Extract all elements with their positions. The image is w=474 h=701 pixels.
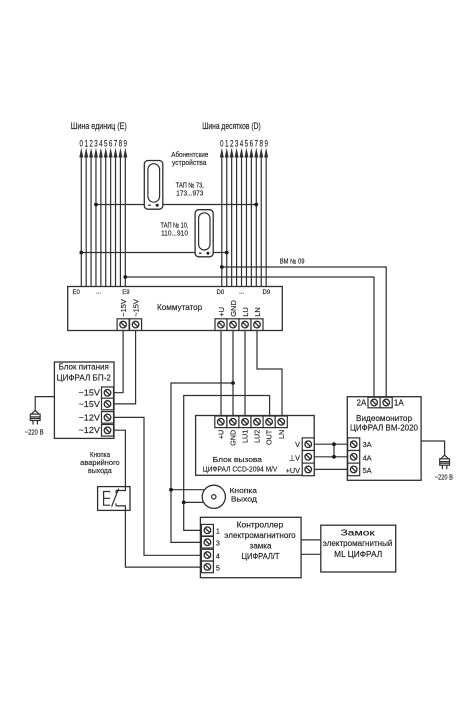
wire: PSU ~12V #1 to controller pin 4 — [114, 417, 201, 555]
svg-text:V: V — [295, 440, 300, 449]
svg-text:замка: замка — [250, 542, 273, 551]
svg-text:9: 9 — [264, 139, 268, 149]
wire: controller to lock #1 — [301, 539, 321, 541]
terminal LU (commutator) — [239, 319, 251, 331]
terminal V (call block) — [302, 438, 314, 451]
svg-text:~12V: ~12V — [79, 412, 101, 422]
wire: video monitor mains lead — [421, 441, 445, 455]
wire: LN commutator to call block LN — [257, 331, 282, 417]
svg-text:~220 В: ~220 В — [435, 472, 453, 481]
svg-text:4: 4 — [240, 139, 244, 149]
svg-text:ЦИФРАЛ CCD-2094: ЦИФРАЛ CCD-2094 — [203, 465, 264, 474]
svg-text:Видеомонитор: Видеомонитор — [356, 414, 413, 423]
svg-text:1: 1 — [225, 139, 229, 149]
pin numbers 0-9 of bus D — [220, 139, 268, 149]
terminal 4A (video monitor) — [348, 451, 360, 464]
svg-text:2A: 2A — [357, 398, 367, 407]
subscriber handset TAP1 (ТАП № 73) — [144, 161, 163, 210]
svg-text:LU1: LU1 — [241, 430, 250, 443]
controller unit (Контроллер электромагнитного замка ЦИФРАЛ/Т) — [200, 517, 301, 577]
node GND branch — [231, 381, 235, 385]
wire: call block OUT to controller pin 1 — [184, 396, 270, 531]
svg-text:Замок: Замок — [341, 528, 376, 537]
svg-text:~220 В: ~220 В — [25, 428, 44, 437]
wire: commutator ~15V #2 to PSU ~15V #2 — [114, 331, 136, 404]
wire: bus line E4 — [99, 148, 103, 287]
terminal LN (call block) — [275, 416, 287, 428]
svg-text:Блок вызова: Блок вызова — [213, 455, 263, 464]
svg-text:LN: LN — [253, 307, 262, 317]
svg-text:выхода: выхода — [88, 466, 113, 475]
terminal +U (commutator) — [215, 319, 227, 331]
svg-text:~12V: ~12V — [79, 425, 101, 435]
value label: ТАП № 10, 110...910 — [161, 221, 189, 238]
wire: bus line D2 — [230, 148, 234, 287]
svg-text:Шина десятков (D): Шина десятков (D) — [202, 121, 261, 131]
svg-text:4: 4 — [216, 552, 220, 561]
svg-text:1: 1 — [216, 527, 220, 536]
wire: bus line D1 — [225, 148, 229, 287]
wire: PSU ~12V #2 to emergency exit button — [114, 430, 125, 486]
svg-text:Коммутатор: Коммутатор — [157, 302, 202, 312]
label: Кнопка аварийного выхода — [80, 450, 120, 475]
pin labels E0 ... E9 — [73, 289, 131, 295]
svg-text:электромагнитный: электромагнитный — [323, 539, 393, 548]
terminal ~15V #2 (PSU) — [102, 398, 114, 410]
wire: PSU mains lead — [35, 397, 54, 411]
terminal ⊥V (call block) — [302, 451, 314, 464]
wire: handset TAP1 to bus E3 — [96, 204, 144, 206]
wire: emergency exit button to controller pin 5 — [125, 510, 201, 567]
svg-text:5: 5 — [104, 139, 108, 149]
wire: bus line E3 — [94, 148, 98, 287]
power supply unit (Блок питания ЦИФРАЛ БП-2) — [54, 362, 114, 438]
svg-text:7: 7 — [255, 139, 259, 149]
wire: exit button lower lead — [184, 501, 204, 503]
node E3 tap — [94, 203, 98, 207]
wire: commutator ~15V #1 to PSU ~15V #1 — [114, 331, 123, 393]
power symbol: mains plug ~220 В (video monitor) — [440, 455, 450, 469]
wire: call block +UV to monitor 5A — [315, 468, 348, 470]
wire: bus line D8 — [259, 148, 263, 287]
switch S1: emergency exit button — [98, 487, 130, 511]
svg-text:3: 3 — [216, 539, 220, 548]
terminal 3A (video monitor) — [348, 438, 360, 451]
terminal ~12V #1 (PSU) — [102, 412, 114, 424]
svg-text:+U: +U — [216, 430, 225, 439]
wire: jumper V to ⊥V — [333, 444, 335, 457]
svg-text:⊥V: ⊥V — [289, 454, 300, 463]
wire: handset TAP1 to bus D7 — [163, 204, 256, 206]
pin numbers 0-9 of bus E — [80, 139, 128, 149]
svg-text:Контроллер: Контроллер — [237, 521, 284, 530]
terminal GND (call block) — [227, 416, 239, 428]
svg-text:1: 1 — [84, 139, 88, 149]
terminal GND (commutator) — [227, 319, 239, 331]
svg-text:Блок питания: Блок питания — [59, 363, 109, 372]
svg-text:8: 8 — [259, 139, 263, 149]
svg-text:110...910: 110...910 — [161, 229, 188, 238]
node D7 tap — [254, 203, 258, 207]
svg-text:~15V: ~15V — [131, 299, 140, 317]
wire: bus line E8 — [118, 148, 122, 287]
wire: bus line E2 — [89, 148, 93, 287]
svg-text:ЦИФРАЛ БП-2: ЦИФРАЛ БП-2 — [57, 374, 112, 383]
svg-text:LU2: LU2 — [253, 430, 262, 443]
power symbol: mains plug ~220 В (PSU) — [30, 411, 40, 425]
node D1 tap — [225, 251, 229, 255]
wire: bus line D9 — [264, 148, 268, 287]
svg-text:5: 5 — [245, 139, 249, 149]
node exit button upper junction — [169, 488, 173, 492]
switch S2: exit button (Кнопка Выход) — [202, 485, 225, 508]
svg-text:7: 7 — [114, 139, 118, 149]
terminal 5A (video monitor) — [348, 463, 360, 476]
svg-text:GND: GND — [229, 430, 238, 446]
wire: bus line E6 — [109, 148, 113, 287]
wire: GND branch to controller pin 3 via exit button — [171, 383, 233, 542]
svg-text:ЦИФРАЛ ВМ-2020: ЦИФРАЛ ВМ-2020 — [350, 423, 419, 432]
svg-text:173...973: 173...973 — [176, 189, 203, 198]
wire: bus line E9 — [123, 148, 127, 287]
wire: exit button upper lead — [171, 489, 205, 491]
terminal 1 (controller) — [201, 524, 213, 536]
wire: +U commutator to call block — [220, 331, 222, 417]
node exit button lower junction — [182, 501, 186, 505]
svg-text:устройства: устройства — [172, 158, 207, 167]
label: Кнопка Выход — [230, 486, 258, 503]
wire: call block ⊥V to monitor 4A — [315, 456, 348, 458]
terminal 1A (video monitor) — [380, 397, 392, 408]
wire: handset TAP2 to bus E0 — [81, 252, 195, 254]
terminal 3 (controller) — [201, 536, 213, 548]
svg-text:~15V: ~15V — [79, 388, 101, 398]
terminal LU2 (call block) — [251, 416, 263, 428]
label: Абонентские устройства — [171, 150, 208, 167]
node E9 junction — [123, 275, 127, 279]
svg-text:E9: E9 — [122, 290, 130, 296]
svg-text:+UV: +UV — [286, 466, 301, 475]
svg-text:ВМ № 09: ВМ № 09 — [280, 258, 305, 265]
svg-text:D9: D9 — [263, 290, 271, 296]
svg-text:LN: LN — [277, 430, 286, 439]
svg-text:6: 6 — [109, 139, 113, 149]
svg-text:+U: +U — [217, 307, 226, 317]
wire: bus line D6 — [249, 148, 253, 287]
node E0 tap — [79, 251, 83, 255]
svg-text:ML ЦИФРАЛ: ML ЦИФРАЛ — [334, 550, 382, 559]
pin labels D0 ... D9 — [217, 289, 271, 295]
svg-text:0: 0 — [220, 139, 224, 149]
terminal ~15V #2 (commutator) — [130, 319, 142, 331]
svg-text:2: 2 — [89, 139, 93, 149]
terminal 5 (controller) — [201, 561, 213, 573]
terminal ~15V #1 (commutator) — [117, 319, 129, 331]
svg-text:2: 2 — [230, 139, 234, 149]
wire: E9 to video monitor 2A — [125, 277, 374, 397]
wire: bus line D0 — [220, 148, 224, 287]
svg-text:ЦИФРАЛ/Т: ЦИФРАЛ/Т — [242, 552, 280, 561]
commutator unit (Коммутатор) — [68, 287, 283, 331]
wire: GND commutator to call block — [232, 331, 234, 417]
wire: bus line D7 — [254, 148, 258, 287]
terminal 4 (controller) — [201, 549, 213, 561]
wire: bus line E5 — [104, 148, 108, 287]
terminal +U (call block) — [215, 416, 227, 428]
node D0 junction — [220, 265, 224, 269]
svg-text:Выход: Выход — [231, 494, 258, 503]
subscriber handset TAP2 (ТАП № 10) — [195, 210, 213, 257]
svg-text:9: 9 — [124, 139, 128, 149]
node perpV jumper — [332, 455, 336, 459]
node V jumper — [332, 442, 336, 446]
svg-text:Шина единиц (Е): Шина единиц (Е) — [71, 121, 127, 131]
terminal LU1 (call block) — [239, 416, 251, 428]
svg-text:электромагнитного: электромагнитного — [224, 531, 296, 540]
svg-text:D0: D0 — [217, 290, 225, 296]
svg-text:OUT: OUT — [265, 429, 274, 445]
wire: controller to lock #2 — [301, 553, 321, 555]
svg-text:E0: E0 — [73, 290, 81, 296]
svg-text:GND: GND — [229, 300, 238, 317]
svg-text:6: 6 — [250, 139, 254, 149]
svg-text:LU: LU — [241, 307, 250, 317]
terminal ~12V #2 (PSU) — [102, 425, 114, 437]
svg-text:...: ... — [96, 289, 101, 295]
svg-text:0: 0 — [80, 139, 84, 149]
svg-text:~15V: ~15V — [119, 299, 128, 317]
video monitor unit (Видеомонитор ЦИФРАЛ ВМ-2020) — [347, 397, 421, 481]
terminal +UV (call block) — [302, 463, 314, 476]
wire: call block V to monitor 3A — [315, 443, 348, 445]
wire: D0 to video monitor 1A — [222, 267, 386, 397]
svg-text:5: 5 — [216, 563, 220, 572]
wire: bus line E1 — [84, 148, 88, 287]
svg-text:4: 4 — [99, 139, 103, 149]
wire: bus line D5 — [244, 148, 248, 287]
svg-text:3: 3 — [235, 139, 239, 149]
svg-text:3A: 3A — [363, 440, 372, 449]
wire: LU commutator to call block LU1 — [244, 331, 246, 417]
terminal OUT (call block) — [263, 416, 275, 428]
terminal LN (commutator) — [251, 319, 263, 331]
svg-text:...: ... — [239, 289, 244, 295]
value label: ТАП № 73, 173...973 — [176, 181, 204, 198]
svg-text:1A: 1A — [394, 398, 404, 407]
wire: bus line D3 — [235, 148, 239, 287]
terminal ~15V #1 (PSU) — [102, 387, 114, 399]
call block unit (Блок вызова ЦИФРАЛ CCD-2094) — [196, 416, 315, 476]
electromagnetic lock (Замок электромагнитный ML ЦИФРАЛ) — [321, 525, 396, 572]
wire: bus line D4 — [240, 148, 244, 287]
wire: handset TAP2 to bus D1 — [213, 252, 227, 254]
svg-text:M/V: M/V — [266, 465, 277, 474]
wire: bus line E7 — [114, 148, 118, 287]
svg-text:3: 3 — [94, 139, 98, 149]
svg-text:5A: 5A — [363, 466, 372, 475]
svg-text:4A: 4A — [363, 454, 372, 463]
svg-text:8: 8 — [119, 139, 123, 149]
svg-text:~15V: ~15V — [79, 399, 101, 409]
terminal 2A (video monitor) — [368, 397, 380, 408]
wire: bus line E0 — [79, 148, 83, 287]
